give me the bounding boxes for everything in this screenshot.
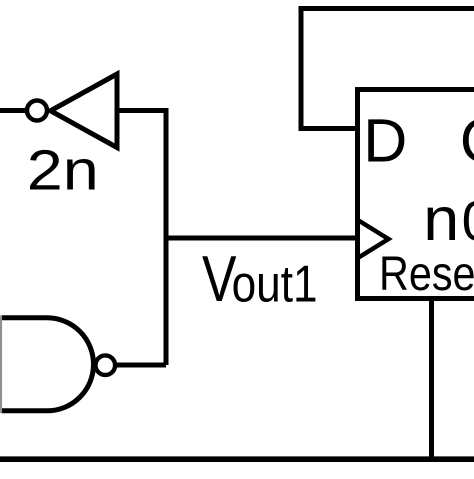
svg-text:2n: 2n (27, 139, 99, 203)
svg-text:D: D (363, 106, 407, 174)
svg-text:out1: out1 (232, 256, 318, 314)
svg-text:0: 0 (462, 189, 474, 252)
svg-text:Reset: Reset (379, 247, 474, 301)
svg-text:Q: Q (460, 106, 474, 174)
svg-text:n: n (423, 185, 459, 253)
